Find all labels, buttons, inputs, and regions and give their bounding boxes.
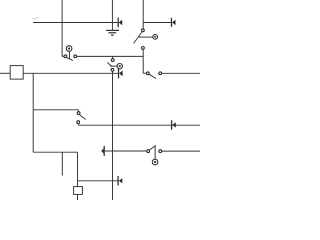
actuator P4 [152,159,158,165]
wire V6 stub [61,152,63,175]
terminator T1 triangle [119,20,123,25]
faint ghost mark above H1a start [32,17,41,19]
switch SW4 terminal right [159,150,162,153]
ground bar 2 [109,32,117,34]
terminator T5 triangle [101,148,104,153]
switch SW1 lever [66,57,73,60]
switch SW3 terminal top [142,29,145,32]
switch SW5 terminal left [146,72,149,75]
wire H4 [33,110,78,112]
switch SW1 terminal right [74,55,77,58]
switch SW2 terminal bottom [77,121,80,124]
switch SW3 terminal bottom [142,47,145,50]
component box X2 [74,187,83,195]
wire V5 stub from H2 [112,56,114,58]
switch SW2 terminal top [77,112,80,115]
terminator T3 bar [118,69,120,79]
wire H6a [105,150,147,152]
switch SW5 lever [149,74,156,78]
switch SW4 terminal left [147,150,150,153]
component box X1 [10,66,23,80]
terminator T3 triangle [119,71,123,77]
wire H2 [77,55,144,57]
wire vertical V4b [143,49,146,73]
wire SW2 bottom corner [77,124,79,126]
wire vertical V5 long [112,71,114,200]
terminator T2 triangle [172,20,175,25]
wire H5 bottom bus [79,124,201,126]
terminator T2 bar [171,18,173,27]
switch SW4 lever [150,145,156,150]
terminator T4 triangle [172,122,176,127]
terminator T6 bar [117,176,119,186]
terminator T6 triangle [119,178,123,183]
wire H3b bus [23,72,118,74]
wire H8 [33,151,77,153]
wire H6b [162,150,200,152]
switch SW1 terminal left [64,55,67,58]
actuator P1 stem [68,51,70,58]
terminator T1 bar [117,18,119,28]
switch SW2 lever [79,115,85,120]
wire H3a left lead [0,72,10,74]
switch SW6 terminal top [111,59,114,62]
switch SW3 lever [134,32,142,43]
ground bar 1 [106,29,119,31]
switch SW5 terminal right [159,72,162,75]
actuator P3 [153,35,158,40]
wire H1a top bus [33,22,118,24]
terminator T4 bar [171,120,173,130]
wire V7 [77,152,79,186]
wire vertical V2 [32,73,34,152]
switch SW6 terminal bottom [111,68,114,71]
switch SW6 tap wire [110,65,117,67]
wire H1b [143,22,171,24]
wire H right of SW5 [162,72,200,74]
wire vertical V4a [142,0,144,29]
actuator P1 [66,46,72,52]
ground bar 3 [111,34,114,36]
switch SW3 tap wire [139,36,153,38]
wire H7 [78,180,118,182]
wire vertical V3 to ground [111,0,113,30]
actuator P2 [117,63,122,68]
actuator P4 stem [154,146,156,159]
switch SW6 lever [107,62,112,66]
wire vertical V1 top-left [62,0,64,56]
wire V7 below box [77,194,79,200]
terminator T5 bar [103,146,105,156]
